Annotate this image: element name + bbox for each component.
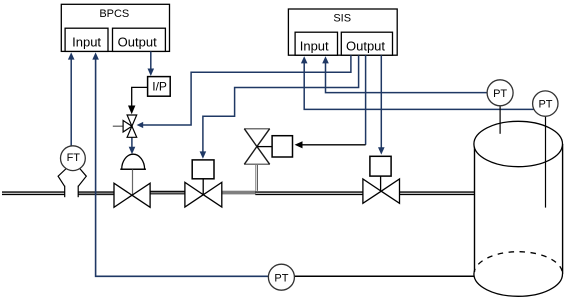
pipe double line valve3 to tank upper xyxy=(400,191,475,193)
svg-text:PT: PT xyxy=(493,88,507,100)
valve2 actuator box xyxy=(192,160,214,179)
valve1 stem xyxy=(132,170,134,196)
bottom PT tap line to tank xyxy=(294,275,474,277)
wire 3-way pilot to diaphragm actuator xyxy=(131,138,133,149)
PT2 tap into tank xyxy=(545,117,547,208)
svg-text:SIS: SIS xyxy=(333,12,351,24)
pipe segment valve1 to valve2 xyxy=(150,190,185,192)
pipe double line junction to valve3 upper xyxy=(255,191,363,193)
svg-text:Input: Input xyxy=(300,39,329,54)
pipe double line valve3 to tank lower xyxy=(400,193,475,195)
PT1 transmitter circle xyxy=(487,80,513,106)
wire PT1 to SIS Input xyxy=(326,63,488,93)
drain valve to solenoid box link xyxy=(257,146,272,148)
valve3 body xyxy=(363,179,400,203)
svg-text:FT: FT xyxy=(67,152,81,164)
tank bottom dashed arc xyxy=(474,252,563,274)
SIS Input box xyxy=(295,32,337,55)
wire SIS Output to valve3 actuator xyxy=(380,55,382,148)
middle solenoid box xyxy=(272,136,292,157)
wire FT to BPCS Input xyxy=(70,59,72,146)
flow element body left xyxy=(58,168,67,186)
svg-text:Input: Input xyxy=(72,35,101,50)
wire bottom PT to BPCS Input xyxy=(96,59,269,277)
SIS Output box xyxy=(341,32,392,55)
bottom PT transmitter circle xyxy=(268,264,294,290)
svg-text:Output: Output xyxy=(346,39,385,54)
wire SIS Output to valve2 actuator xyxy=(203,55,359,153)
pipe double line inlet segment upper xyxy=(2,191,65,193)
pipe double line junction to valve3 lower xyxy=(255,193,363,195)
tank shell xyxy=(474,144,476,272)
diaphragm actuator dome xyxy=(122,154,145,169)
BPCS Output box xyxy=(113,28,166,51)
drain valve (vertical bowtie) xyxy=(244,128,269,130)
drain valve stem (double line) xyxy=(255,165,257,191)
svg-text:I/P: I/P xyxy=(152,80,167,94)
valve2 stem xyxy=(202,179,204,195)
valve1 body xyxy=(114,183,150,207)
wire SIS Output to middle solenoid box xyxy=(365,55,367,145)
wire I/P to 3-way pilot valve xyxy=(132,87,148,106)
tank bottom solid arc xyxy=(474,274,563,296)
valve3 actuator box xyxy=(370,156,391,176)
flow element body right xyxy=(78,168,86,186)
valve2 body xyxy=(185,182,222,207)
pipe gray band valve2 to drain junction xyxy=(222,191,256,195)
FT transmitter circle xyxy=(61,146,86,171)
flow element ticks xyxy=(64,186,66,198)
3-way pilot valve stub (left) xyxy=(113,125,123,127)
pipe double line inlet segment lower xyxy=(2,193,65,195)
PT1 tap into tank xyxy=(499,106,501,134)
I/P converter box xyxy=(148,77,171,97)
BPCS controller box xyxy=(61,4,169,51)
svg-text:PT: PT xyxy=(274,272,288,284)
SIS controller box xyxy=(288,9,397,55)
PT2 transmitter circle xyxy=(533,91,558,116)
valve3 stem xyxy=(380,176,382,191)
tank top ellipse xyxy=(474,121,563,166)
wire PT2 to SIS Input xyxy=(304,63,533,110)
3-way pilot valve xyxy=(123,115,137,137)
wire BPCS Output to I/P xyxy=(150,51,152,70)
wire SIS Output to 3-way pilot valve xyxy=(143,55,351,125)
svg-text:BPCS: BPCS xyxy=(99,8,129,20)
svg-text:PT: PT xyxy=(538,99,552,111)
pipe segment flow element to valve1 xyxy=(78,191,114,193)
BPCS Input box xyxy=(65,28,108,51)
svg-text:Output: Output xyxy=(118,35,157,50)
